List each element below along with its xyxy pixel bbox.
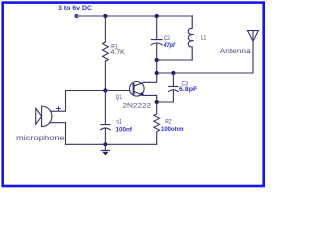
wire: emitter wire bbox=[144, 95, 157, 102]
svg-text:4.7K: 4.7K bbox=[111, 49, 126, 56]
wire: ground bus bbox=[66, 143, 157, 145]
node: C2 top junction dot bbox=[155, 14, 159, 18]
wire: microphone bottom lead bbox=[50, 123, 66, 145]
resistor R2 bbox=[154, 102, 160, 144]
node: collector bus dot bbox=[155, 71, 159, 75]
node: tank bottom dot bbox=[155, 58, 159, 62]
antenna bbox=[248, 31, 259, 42]
svg-text:c1: c1 bbox=[116, 118, 122, 125]
capacitor C2 bbox=[151, 16, 162, 60]
wire: base wire bbox=[66, 90, 130, 92]
junction node at R1 top bbox=[103, 14, 107, 18]
svg-text:3 to 6v DC: 3 to 6v DC bbox=[58, 5, 92, 12]
ground bbox=[101, 144, 109, 150]
wire: +V top rail bbox=[77, 15, 193, 17]
svg-text:L1: L1 bbox=[201, 35, 207, 42]
svg-text:100nf: 100nf bbox=[116, 127, 133, 134]
wire: microphone top lead bbox=[50, 91, 65, 112]
wire: collector wire bbox=[144, 73, 157, 82]
node: emitter junction dot bbox=[155, 100, 159, 104]
svg-text:microphone: microphone bbox=[16, 135, 65, 142]
plus sign at mic output bbox=[57, 107, 61, 111]
wire: antenna bus bbox=[157, 41, 253, 73]
wire: R1 top lead bbox=[104, 16, 106, 42]
svg-text:Antenna: Antenna bbox=[220, 48, 251, 55]
svg-text:100ohm: 100ohm bbox=[161, 126, 184, 133]
wire: tank bottom bbox=[157, 59, 193, 61]
inductor L1 bbox=[188, 16, 193, 60]
node: base junction dot bbox=[103, 88, 107, 92]
capacitor C3 bbox=[157, 73, 179, 102]
svg-text:2N2222: 2N2222 bbox=[123, 102, 152, 109]
svg-text:Q1.: Q1. bbox=[116, 94, 123, 101]
svg-text:R2: R2 bbox=[165, 119, 172, 126]
node: C3 top junction dot bbox=[171, 71, 175, 75]
svg-text:47pf: 47pf bbox=[163, 42, 176, 49]
wire: R1 bottom lead bbox=[104, 61, 106, 90]
node: supply terminal dot bbox=[75, 14, 79, 18]
wire: collector node to tank bottom bbox=[156, 60, 158, 73]
resistor R1 bbox=[103, 42, 109, 61]
transistor Q1 bbox=[130, 82, 145, 97]
microphone bbox=[36, 106, 52, 127]
svg-text:6.8pF: 6.8pF bbox=[179, 86, 197, 93]
capacitor c1 bbox=[101, 91, 111, 145]
node: ground junction dot bbox=[103, 142, 107, 146]
